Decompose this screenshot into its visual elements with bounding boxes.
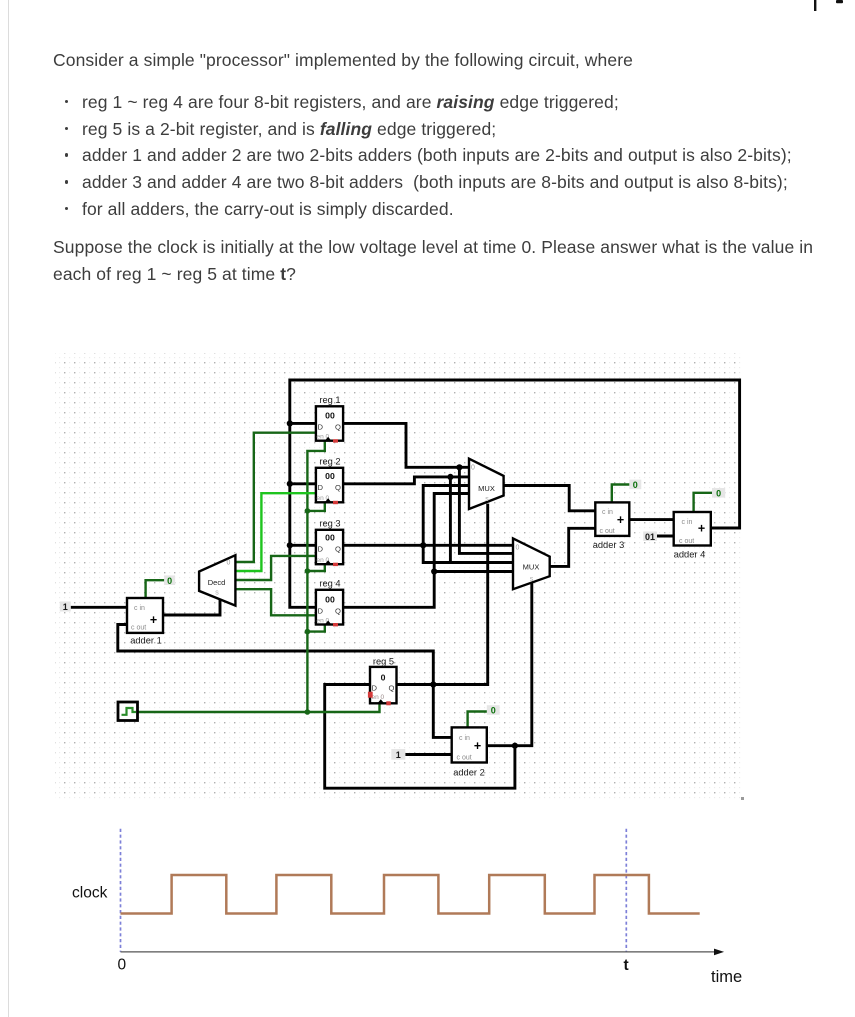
svg-text:reg 5: reg 5	[373, 657, 394, 667]
svg-text:en 0: en 0	[372, 694, 385, 701]
svg-text:c out: c out	[600, 528, 615, 535]
svg-text:Q: Q	[335, 483, 341, 492]
svg-text:+: +	[617, 513, 624, 527]
svg-text:+: +	[474, 739, 481, 753]
svg-text:s: s	[530, 576, 534, 583]
svg-text:adder 1: adder 1	[130, 636, 162, 646]
svg-text:adder 2: adder 2	[453, 768, 485, 778]
svg-text:0: 0	[516, 545, 520, 552]
svg-text:D: D	[372, 684, 378, 693]
svg-text:00: 00	[325, 595, 335, 605]
svg-text:reg 2: reg 2	[319, 457, 340, 467]
svg-text:+: +	[150, 613, 157, 627]
svg-text:adder 4: adder 4	[674, 550, 706, 560]
svg-text:s: s	[215, 590, 219, 597]
svg-text:00: 00	[325, 471, 335, 481]
svg-text:c in: c in	[682, 519, 693, 526]
svg-text:s: s	[485, 496, 489, 503]
svg-text:D: D	[318, 544, 324, 553]
svg-text:00: 00	[325, 411, 335, 421]
svg-text:0: 0	[381, 673, 386, 683]
svg-text:t: t	[624, 957, 629, 974]
svg-text:0: 0	[491, 706, 496, 716]
svg-text:Q: Q	[335, 606, 341, 615]
svg-text:c out: c out	[457, 755, 472, 762]
svg-text:D: D	[318, 483, 324, 492]
svg-text:c out: c out	[131, 625, 146, 632]
svg-text:D: D	[318, 423, 324, 432]
svg-text:D: D	[318, 606, 324, 615]
svg-text:0: 0	[227, 560, 231, 567]
svg-text:adder 3: adder 3	[593, 540, 625, 550]
svg-text:clock: clock	[72, 885, 108, 902]
svg-text:MUX: MUX	[478, 484, 495, 493]
svg-text:00: 00	[325, 533, 335, 543]
svg-text:0: 0	[471, 465, 475, 472]
svg-text:Q: Q	[389, 684, 395, 693]
svg-text:c out: c out	[679, 538, 694, 545]
svg-text:c in: c in	[602, 509, 613, 516]
svg-text:MUX: MUX	[523, 563, 540, 572]
svg-text:reg 1: reg 1	[319, 395, 340, 405]
svg-text:1: 1	[396, 750, 401, 760]
svg-text:reg 3: reg 3	[319, 519, 340, 529]
svg-text:c in: c in	[459, 735, 470, 742]
svg-text:c in: c in	[134, 605, 145, 612]
svg-text:1: 1	[63, 602, 68, 612]
svg-text:0: 0	[167, 576, 172, 586]
svg-text:0: 0	[118, 957, 127, 974]
svg-text:Decd: Decd	[208, 578, 226, 587]
svg-text:+: +	[698, 522, 705, 536]
svg-text:time: time	[711, 968, 742, 986]
svg-text:Q: Q	[335, 544, 341, 553]
svg-text:0: 0	[633, 480, 638, 490]
svg-text:01: 01	[645, 532, 655, 542]
svg-text:reg 4: reg 4	[319, 579, 340, 589]
svg-text:Q: Q	[335, 423, 341, 432]
svg-text:0: 0	[716, 488, 721, 498]
